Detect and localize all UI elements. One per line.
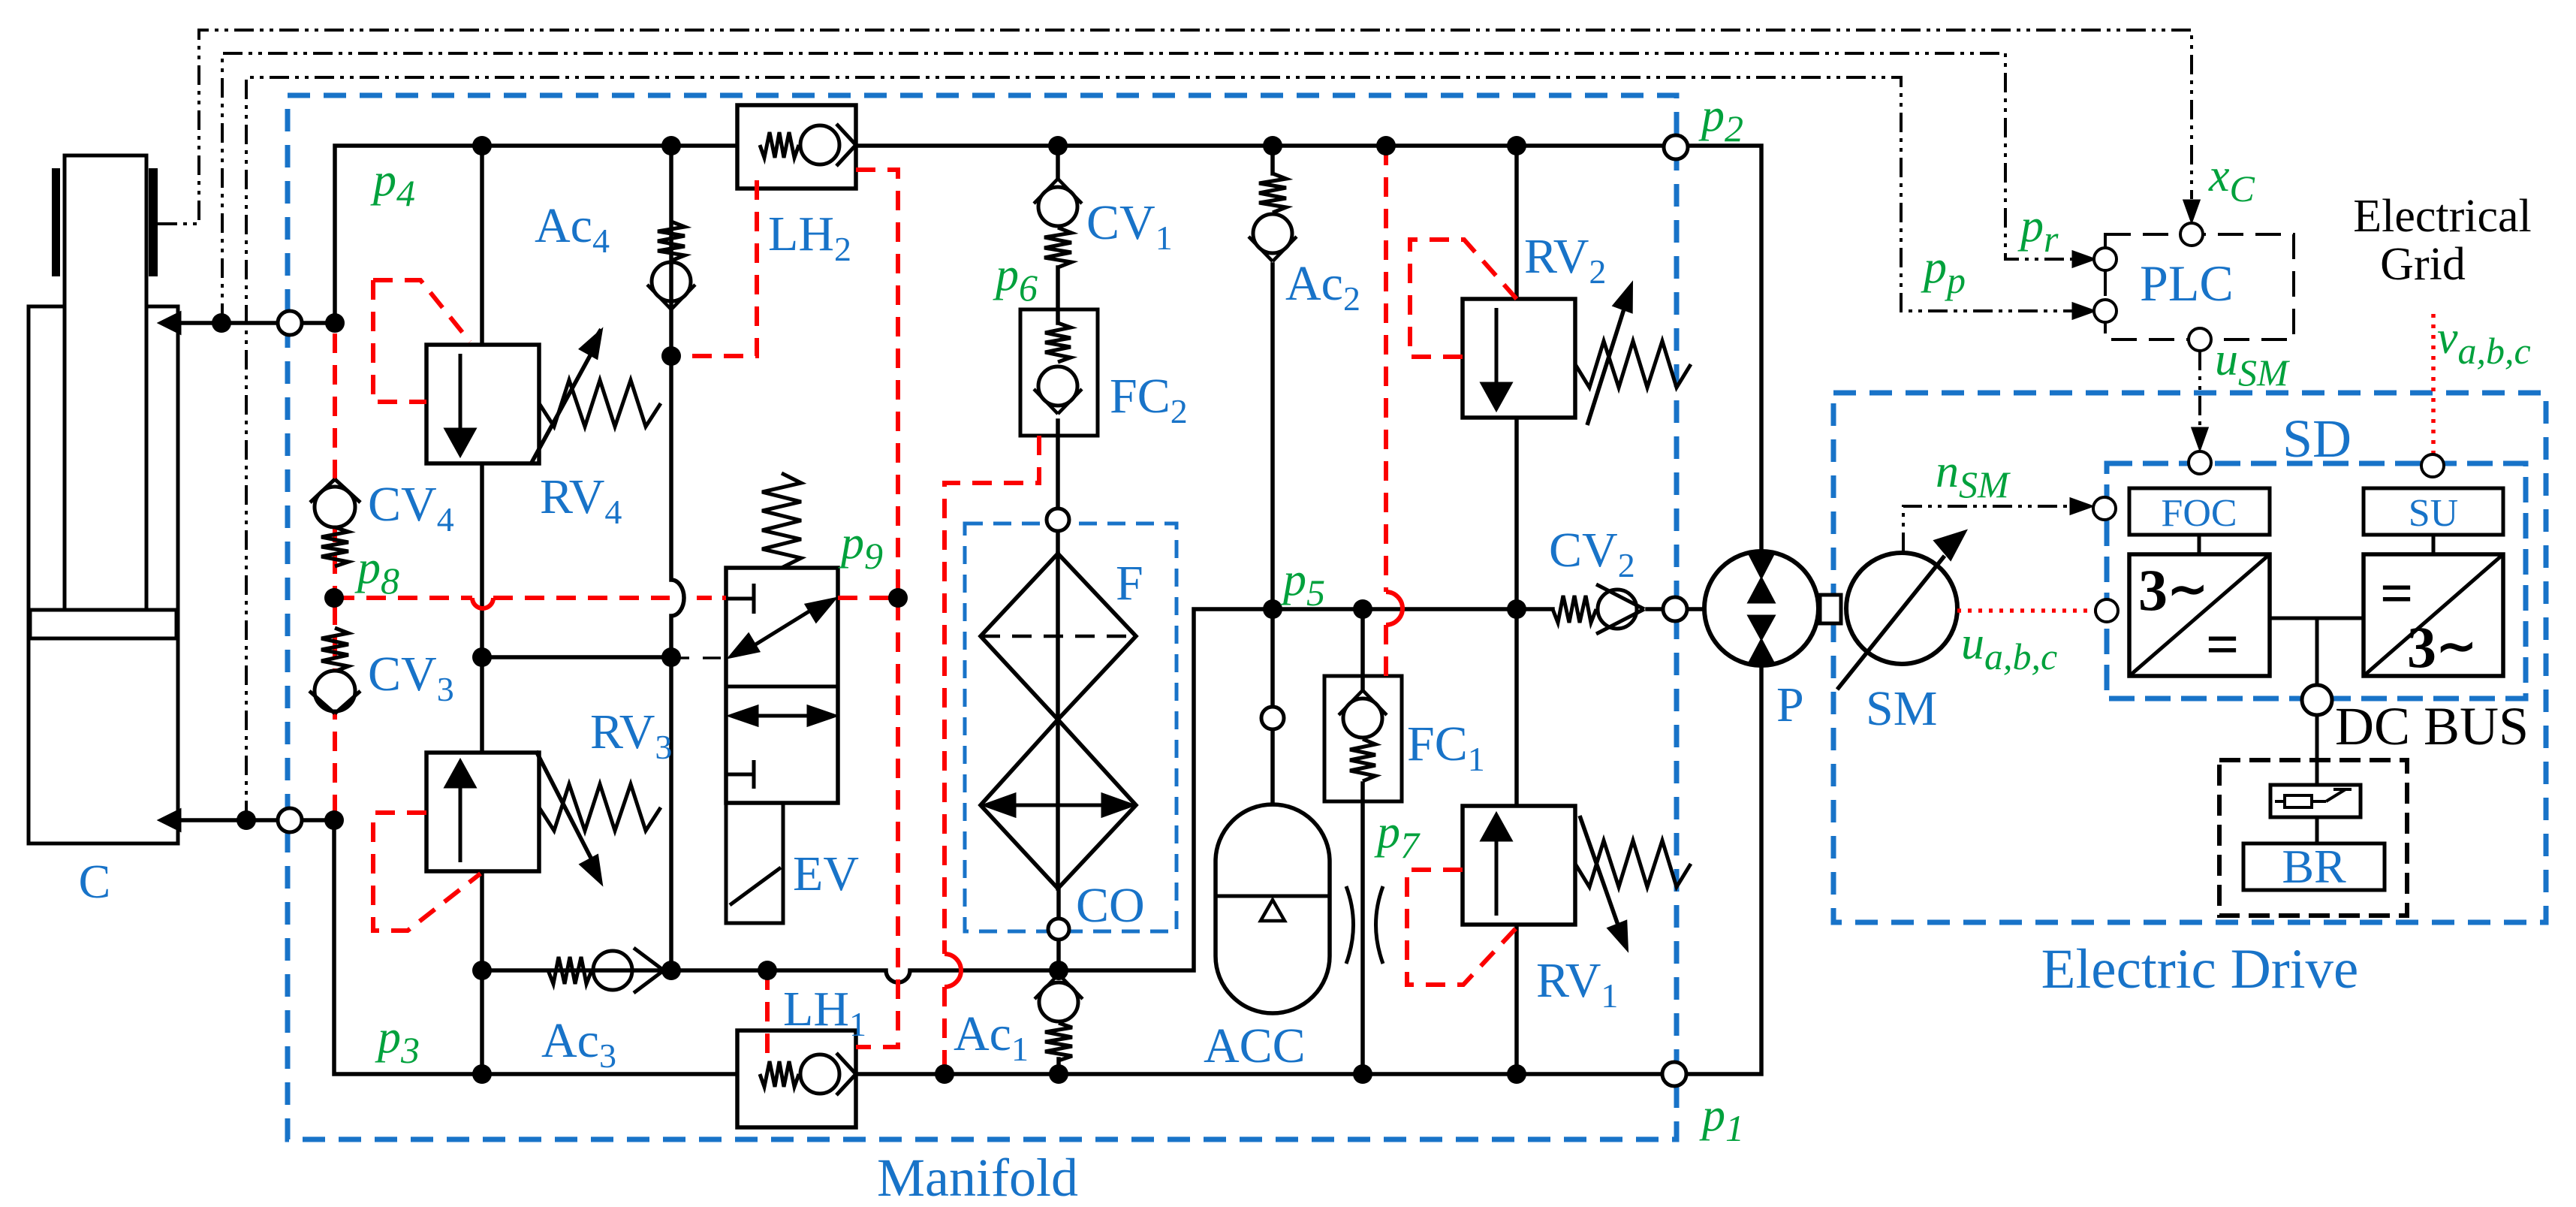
svg-text:F: F [1116, 556, 1143, 611]
svg-text:FOC: FOC [2161, 492, 2237, 535]
svg-text:PLC: PLC [2140, 255, 2234, 312]
svg-text:SD: SD [2282, 409, 2352, 469]
svg-text:CO: CO [1076, 878, 1145, 933]
svg-text:Grid: Grid [2380, 239, 2466, 290]
svg-text:SM: SM [1866, 681, 1937, 736]
svg-text:C: C [79, 855, 111, 908]
svg-text:SU: SU [2409, 492, 2458, 535]
svg-text:EV: EV [793, 846, 859, 901]
svg-text:P: P [1776, 677, 1804, 732]
svg-text:3∼: 3∼ [2407, 614, 2477, 680]
svg-text:=: = [2206, 611, 2239, 677]
svg-text:Electrical: Electrical [2353, 191, 2532, 242]
svg-text:DC BUS: DC BUS [2335, 696, 2529, 756]
svg-text:Manifold: Manifold [877, 1148, 1078, 1203]
svg-text:3∼: 3∼ [2138, 557, 2208, 623]
svg-text:BR: BR [2282, 840, 2346, 893]
svg-text:ACC: ACC [1204, 1018, 1306, 1073]
svg-text:Electric Drive: Electric Drive [2041, 938, 2359, 1000]
